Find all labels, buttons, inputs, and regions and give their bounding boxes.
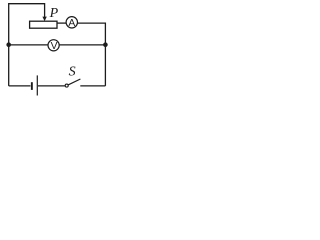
node: right junction dot <box>103 42 108 47</box>
wire: middle voltmeter branch <box>9 44 106 46</box>
rheostat (slide resistor) box <box>30 21 57 28</box>
wire: battery to switch <box>38 85 65 87</box>
ammeter A <box>66 17 77 28</box>
wire: bottom left to battery <box>9 85 31 87</box>
switch S: pivot circle <box>65 84 68 87</box>
svg-text:S: S <box>69 64 76 79</box>
wire: ammeter to right side and down <box>77 23 105 86</box>
svg-text:V: V <box>51 41 58 52</box>
wire: rheostat to ammeter <box>57 22 66 24</box>
wire: switch to bottom right <box>80 85 105 87</box>
wire: left side, top run and slider stem <box>9 4 45 86</box>
battery: long thin positive plate <box>36 75 38 95</box>
svg-text:A: A <box>68 18 75 29</box>
voltmeter V <box>48 40 59 51</box>
node: left junction dot <box>6 42 11 47</box>
svg-text:P: P <box>49 6 59 21</box>
slider arrow of rheostat <box>42 17 46 22</box>
battery: short thick negative plate <box>31 82 33 90</box>
switch S: blade <box>68 79 80 85</box>
